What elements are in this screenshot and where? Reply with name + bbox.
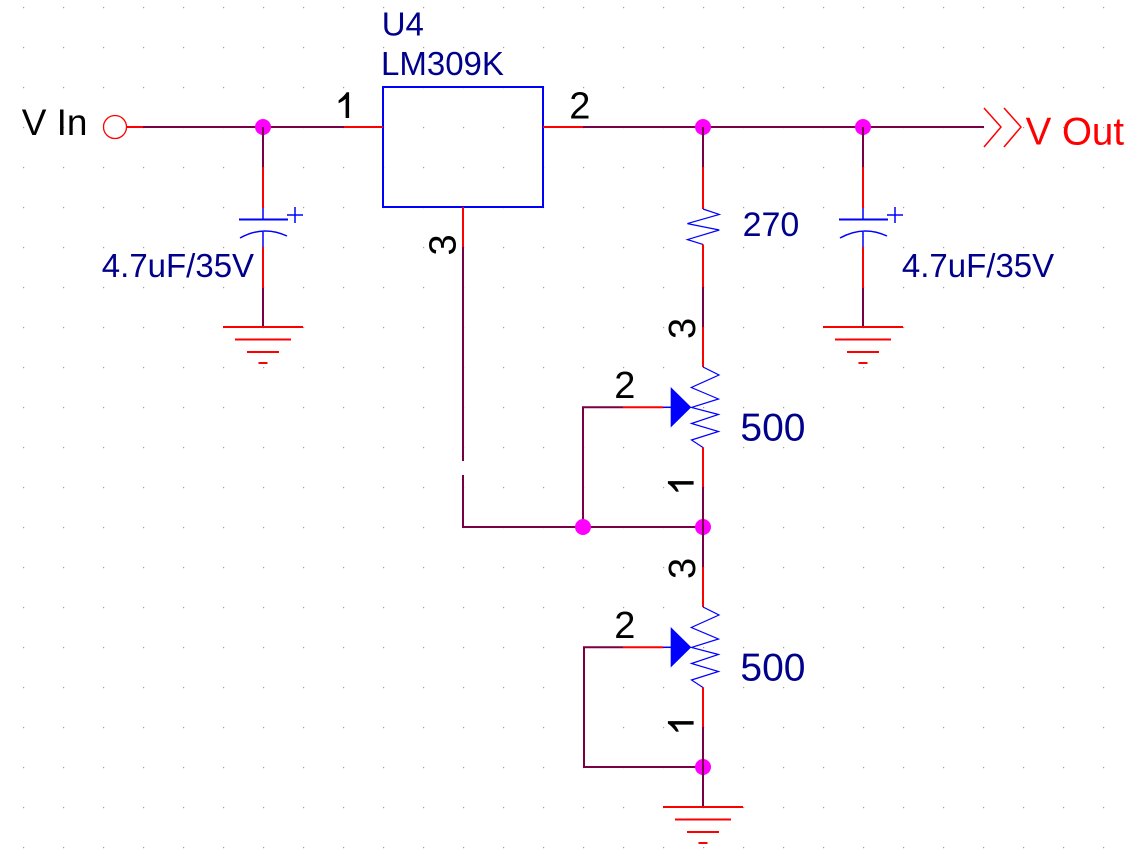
wire U4 pin 2 to V Out <box>583 126 984 128</box>
svg-text:2: 2 <box>614 365 635 407</box>
junction node R1 tap <box>695 119 711 135</box>
wire RV2 wiper loop <box>584 647 703 767</box>
ground under C2 <box>823 327 903 363</box>
wire junction down to C1 <box>262 127 264 167</box>
ground at bottom <box>663 807 743 843</box>
svg-text:LM309K: LM309K <box>381 45 504 82</box>
regulator U4 LM309K box <box>383 87 543 207</box>
svg-text:2: 2 <box>614 605 635 647</box>
svg-text:500: 500 <box>740 406 805 449</box>
label RV2 pin 1 (rotated) <box>668 721 694 732</box>
svg-text:V Out: V Out <box>1026 110 1125 153</box>
svg-text:4.7uF/35V: 4.7uF/35V <box>902 247 1054 284</box>
pin number 1 <box>339 92 350 118</box>
svg-text:2: 2 <box>569 85 590 127</box>
wire junction down to C2 <box>862 127 864 167</box>
wire C2 to ground <box>862 288 864 327</box>
wire RV1 pin1 through junction to RV2 <box>702 487 704 567</box>
wire RV1 wiper loop <box>583 407 623 527</box>
svg-text:4.7uF/35V: 4.7uF/35V <box>102 247 254 284</box>
capacitor C2 4.7uF/35V <box>839 167 903 288</box>
svg-text:270: 270 <box>743 206 800 244</box>
wire R1 to RV1 <box>702 287 704 327</box>
junction node RV1 pin1 <box>695 519 711 535</box>
junction node C2 tap <box>855 119 871 135</box>
resistor R1 270 <box>687 167 719 287</box>
svg-text:3: 3 <box>662 558 704 579</box>
junction node at C1 tap <box>255 119 271 135</box>
wire C1 to ground <box>262 288 264 327</box>
capacitor C1 4.7uF/35V <box>239 167 303 288</box>
port P2 V Out chevrons <box>984 108 1021 147</box>
potentiometer RV2 500 <box>623 567 719 727</box>
wire junction down to R1 <box>702 127 704 167</box>
wire junction to ground <box>702 767 704 807</box>
junction node RV2 pin1/ground <box>695 759 711 775</box>
label RV1 pin 1 (rotated) <box>668 481 694 492</box>
potentiometer RV1 500 <box>623 327 719 487</box>
svg-text:3: 3 <box>662 318 704 339</box>
pin 2 of U4 <box>543 126 583 128</box>
ground under C1 <box>223 327 303 363</box>
svg-text:U4: U4 <box>382 5 424 42</box>
svg-text:3: 3 <box>423 234 465 255</box>
port P1 V In terminal circle <box>104 116 144 139</box>
wire RV2 pin1 to junction <box>702 727 704 767</box>
wire U4 pin3 down (upper segment) <box>462 247 464 461</box>
wire U4 pin3 down (lower segment) <box>463 475 703 527</box>
pin 3 of U4 <box>462 207 464 247</box>
wire V In to U4 pin 1 <box>143 126 344 128</box>
svg-text:500: 500 <box>740 646 805 689</box>
svg-text:V In: V In <box>22 102 88 143</box>
pin 1 of U4 <box>344 126 383 128</box>
junction node wiper/pin3 <box>575 519 591 535</box>
